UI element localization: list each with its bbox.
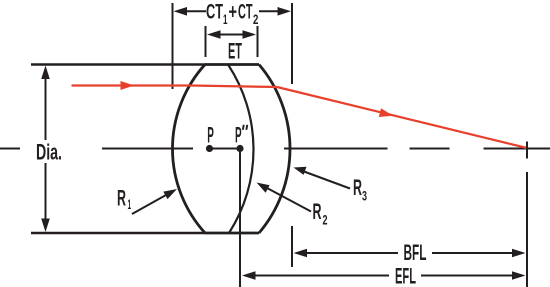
red incident ray horizontal segment: [72, 84, 192, 86]
R3 leader line: [304, 172, 350, 189]
Dia. dimension arrowhead up: [41, 66, 50, 80]
svg-text:P: P: [235, 123, 242, 148]
lens flat bottom edge: [205, 232, 259, 235]
svg-text:2: 2: [253, 11, 259, 27]
EFL arrowhead right: [512, 271, 526, 280]
principal plane vertical line from P'': [239, 149, 241, 287]
optical axis dash 1: [0, 148, 20, 150]
EFL dimension line left: [254, 275, 389, 277]
ET arrowhead right: [243, 30, 257, 39]
diameter top extension line: [31, 63, 206, 65]
svg-text:Dia.: Dia.: [36, 140, 62, 165]
CT1+CT2 dimension line right: [259, 10, 279, 12]
BFL arrowhead right: [512, 249, 526, 258]
optical axis dash 2: [102, 148, 193, 150]
svg-text:R: R: [117, 186, 126, 211]
P'' prime ticks: [243, 125, 248, 130]
R1 leader line: [132, 195, 166, 214]
BFL dimension line right: [432, 252, 513, 254]
svg-text:2: 2: [323, 211, 328, 227]
lens right surface R3 arc: [259, 65, 290, 234]
R3 leader arrowhead: [294, 167, 307, 175]
svg-text:R: R: [313, 199, 322, 224]
BFL dimension line left: [306, 252, 398, 254]
BFL extension line at lens vertex: [291, 226, 293, 267]
optical axis dash 5: [484, 148, 550, 150]
Dia. dimension arrowhead down: [41, 219, 50, 233]
principal point P'' dot: [236, 145, 243, 152]
BFL arrowhead left: [294, 249, 308, 258]
svg-text:ET: ET: [228, 39, 242, 64]
focal point tick: [526, 142, 528, 159]
CT1+CT2 arrowhead left: [174, 7, 188, 16]
ET right extension line: [257, 26, 259, 57]
R1 leader arrowhead: [163, 189, 177, 199]
diameter bottom extension line: [31, 232, 206, 234]
red refracted ray to focus: [277, 87, 527, 148]
ET left extension line: [205, 26, 207, 57]
EFL arrowhead left: [242, 271, 256, 280]
EFL dimension line right: [421, 275, 513, 277]
svg-text:EFL: EFL: [395, 264, 416, 287]
svg-text:P: P: [207, 123, 214, 148]
R2 leader line: [267, 188, 311, 212]
optical axis dash 4: [410, 148, 450, 150]
optical axis dash 3: [284, 148, 388, 150]
svg-text:1: 1: [223, 11, 228, 27]
ET arrowhead left: [207, 30, 221, 39]
Dia. dimension arrow lower segment: [45, 163, 47, 219]
CT1+CT2 left extension line: [172, 3, 174, 89]
svg-text:CT: CT: [206, 0, 223, 23]
principal point P dot: [206, 145, 213, 152]
red ray segment inside lens: [191, 86, 277, 88]
segment joining P and P'': [210, 148, 241, 150]
focal plane extension line: [526, 172, 528, 287]
Dia. dimension arrow upper segment: [45, 78, 47, 140]
lens flat top edge: [205, 63, 259, 66]
svg-text:3: 3: [362, 188, 367, 204]
svg-text:BFL: BFL: [404, 240, 427, 265]
red ray arrowhead 1: [121, 81, 135, 90]
svg-text:R: R: [353, 175, 362, 200]
CT1+CT2 arrowhead right: [278, 7, 292, 16]
CT1+CT2 dimension line left: [186, 10, 206, 12]
ET dimension line: [218, 34, 245, 36]
lens left surface R1 arc: [172, 65, 205, 234]
svg-text:+: +: [229, 0, 238, 23]
svg-text:CT: CT: [238, 0, 253, 23]
svg-text:1: 1: [128, 196, 132, 212]
lens internal surface R2 arc: [228, 65, 253, 234]
R2 leader arrowhead: [257, 183, 270, 193]
red ray arrowhead 2: [379, 108, 394, 120]
CT1+CT2 right extension line: [291, 3, 293, 84]
